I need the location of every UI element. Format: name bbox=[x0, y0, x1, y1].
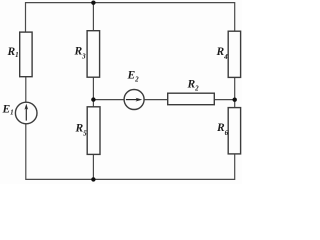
wire middle branch upper bbox=[92, 3, 94, 31]
resistor R6 bbox=[228, 108, 240, 154]
source E1 circle bbox=[15, 102, 37, 124]
source E1 arrow bbox=[25, 104, 29, 121]
junction node right bbox=[233, 98, 237, 102]
junction node middle bbox=[91, 97, 95, 101]
svg-text:R2: R2 bbox=[187, 79, 200, 93]
svg-text:R3: R3 bbox=[74, 46, 87, 61]
svg-text:E1: E1 bbox=[2, 104, 14, 117]
resistor R1 bbox=[20, 32, 32, 77]
source E2 arrow bbox=[126, 98, 142, 102]
wire left branch upper bbox=[25, 2, 27, 32]
wire middle branch between R3 and node bbox=[92, 77, 94, 107]
source E2 circle bbox=[124, 90, 144, 110]
junction node bottom bbox=[91, 177, 95, 181]
wire right branch middle bbox=[234, 77, 236, 107]
wire bottom horizontal bbox=[26, 178, 235, 180]
wire top horizontal bbox=[26, 2, 235, 4]
wire E2 to R2 bbox=[144, 99, 168, 101]
svg-text:R5: R5 bbox=[75, 123, 88, 138]
resistor R3 bbox=[87, 31, 100, 77]
junction node top bbox=[91, 1, 95, 5]
svg-text:R1: R1 bbox=[7, 46, 19, 59]
wire right branch upper bbox=[234, 2, 236, 31]
svg-text:R6: R6 bbox=[216, 122, 229, 137]
resistor R2 bbox=[168, 93, 215, 105]
svg-text:E2: E2 bbox=[127, 70, 140, 84]
wire middle horizontal node to E2 bbox=[93, 99, 124, 101]
svg-text:R4: R4 bbox=[216, 46, 229, 61]
resistor R4 bbox=[228, 31, 240, 77]
resistor R5 bbox=[87, 107, 100, 155]
wire middle branch lower bbox=[92, 154, 94, 179]
wire right branch lower bbox=[234, 154, 236, 180]
wire R2 to right branch bbox=[214, 99, 234, 101]
wire left branch lower bbox=[25, 124, 27, 180]
wire left branch middle bbox=[25, 77, 27, 103]
